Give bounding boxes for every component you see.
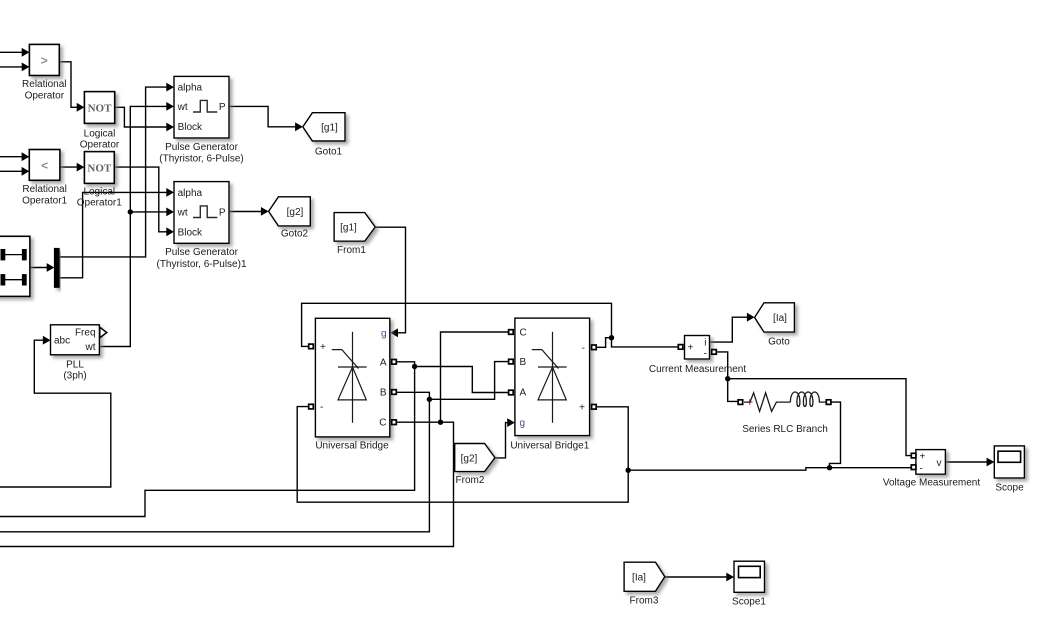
svg-text:Goto2: Goto2 [281, 229, 309, 240]
wire Logical Operator1 output to Pulse Generator1 Block input [114, 167, 167, 232]
svg-text:NOT: NOT [87, 163, 112, 175]
svg-text:Scope: Scope [995, 482, 1024, 493]
arrowhead into Relational Operator input 1 [22, 48, 30, 57]
arrowhead into Universal Bridge1 g input [507, 418, 515, 427]
svg-text:Operator1: Operator1 [22, 195, 67, 206]
svg-text:Series RLC Branch: Series RLC Branch [742, 424, 828, 435]
wire Universal Bridge1 plus output to minus rail [297, 407, 628, 503]
svg-text:Relational: Relational [22, 79, 66, 90]
arrowhead into Pulse Generator1 Block input [166, 227, 174, 236]
wire phase C line from Universal Bridge C port [0, 422, 454, 546]
wire phase A to Universal Bridge1 A port [415, 367, 510, 393]
port pad current measurement minus [712, 350, 717, 355]
port pad universal bridge plus [309, 344, 314, 349]
arrowhead into demux [47, 263, 55, 272]
svg-text:Operator: Operator [25, 91, 65, 102]
port pad universal bridge B [392, 390, 397, 395]
wire From2 output to Universal Bridge1 g input [495, 423, 507, 458]
port pad universal bridge1 plus [592, 405, 597, 410]
junction dot DC plus node [609, 335, 614, 340]
svg-text:abc: abc [54, 336, 70, 347]
wire into Relational Operator1 input 1 [0, 156, 23, 158]
wire phase B jog to Universal Bridge B port [394, 392, 429, 399]
port pad universal bridge1 B [509, 359, 514, 364]
wire phase C branch up to Universal Bridge1 C port [441, 332, 510, 422]
wire Series RLC Branch output down to minus rail [829, 402, 841, 468]
svg-text:wt: wt [85, 342, 96, 353]
pulse generator1 block [156, 182, 246, 271]
wire node to Current Measurement input [612, 338, 681, 347]
port pad series RLC branch right [826, 400, 831, 405]
svg-text:B: B [520, 357, 527, 368]
from1 tag g1 [334, 213, 375, 257]
wire into Relational Operator1 input 2 [0, 170, 23, 172]
unconnected Freq output port arrow [100, 327, 107, 337]
wire From3 output to Scope1 [665, 576, 727, 578]
wire Current Measurement minus to Series RLC Branch [714, 352, 738, 402]
thyristor icon [532, 332, 567, 423]
goto tag Ia [755, 303, 795, 348]
wire branch junction to Pulse Generator1 wt input [130, 211, 167, 213]
inductor L [790, 392, 825, 406]
relational operator1 block < [22, 150, 67, 207]
svg-text:Operator: Operator [80, 140, 120, 151]
junction dot phase C [438, 420, 443, 425]
svg-text:C: C [520, 328, 527, 339]
svg-text:Scope1: Scope1 [732, 597, 766, 608]
thyristor icon [332, 332, 367, 423]
wire feed to PLL abc input [0, 340, 111, 487]
svg-text:B: B [380, 388, 387, 399]
svg-text:+: + [579, 402, 585, 413]
port pad universal bridge A [392, 360, 397, 365]
arrowhead into PLL abc input [43, 336, 51, 345]
svg-text:Relational: Relational [22, 184, 66, 195]
svg-text:C: C [379, 418, 386, 429]
junction dot wt line [128, 209, 133, 214]
junction dot phase B [427, 397, 432, 402]
svg-text:Operator1: Operator1 [77, 198, 122, 209]
arrowhead into Relational Operator input 2 [22, 63, 30, 72]
wire minus rail to Voltage Measurement minus input [628, 468, 913, 471]
wire branch to Voltage Measurement plus input [728, 379, 914, 456]
wire phase B line [0, 399, 429, 532]
svg-text:(3ph): (3ph) [63, 371, 86, 382]
svg-text:-: - [920, 464, 923, 475]
junction dot phase A [412, 364, 417, 369]
svg-text:Logical: Logical [84, 128, 116, 139]
svg-text:Voltage Measurement: Voltage Measurement [883, 478, 981, 489]
logical operator1 block NOT [77, 152, 122, 209]
arrowhead into Goto2 [261, 207, 269, 216]
wire into Relational Operator input 1 [0, 51, 23, 53]
svg-text:A: A [380, 357, 387, 368]
logical operator block NOT [80, 92, 120, 151]
port pad current measurement input [678, 345, 683, 350]
port pad universal bridge1 A [509, 390, 514, 395]
svg-text:[g1]: [g1] [340, 223, 357, 234]
wire Universal Bridge1 minus output jog to node [594, 338, 612, 348]
arrowhead into Relational Operator1 input 2 [22, 167, 30, 176]
wire phase A line [0, 367, 415, 517]
svg-text:A: A [520, 388, 527, 399]
series RLC branch [744, 392, 826, 411]
wire Voltage Measurement v output to Scope [945, 461, 987, 463]
port pad voltage measurement minus [911, 465, 916, 470]
arrowhead into Universal Bridge g input pointing left [390, 328, 398, 337]
svg-text:From1: From1 [337, 245, 366, 256]
PLL (3ph) block [51, 325, 107, 382]
svg-text:Current Measurement: Current Measurement [649, 364, 746, 375]
svg-text:Pulse Generator: Pulse Generator [165, 142, 238, 153]
wire From1 output to Universal Bridge g input [375, 227, 405, 333]
arrowhead into Logical Operator input [77, 103, 85, 112]
svg-text:(Thyristor, 6-Pulse)1: (Thyristor, 6-Pulse)1 [156, 259, 246, 270]
wire phase B to Universal Bridge1 B port [429, 362, 510, 400]
wire phase A jog to Universal Bridge A port [394, 362, 415, 367]
svg-text:-: - [704, 348, 707, 359]
universal bridge block [315, 318, 389, 437]
svg-text:g: g [381, 328, 387, 339]
port pad universal bridge1 C [509, 330, 514, 335]
wire Universal Bridge plus output to node [302, 303, 612, 346]
wire Pulse Generator1 P output to Goto2 [229, 211, 262, 213]
svg-text:Block: Block [178, 227, 203, 238]
svg-text:wt: wt [177, 208, 188, 219]
port pad universal bridge1 minus [592, 345, 597, 350]
arrowhead into Scope [987, 458, 995, 467]
universal bridge1 block [515, 318, 590, 436]
current measurement block [685, 336, 710, 360]
svg-text:Freq: Freq [75, 327, 96, 338]
goto2 tag g2 [269, 197, 311, 240]
wire Pulse Generator P output to Goto1 [229, 106, 296, 126]
wire Relational Operator1 output to Logical Operator1 [60, 166, 78, 168]
scope1 block [732, 561, 766, 607]
svg-text:alpha: alpha [178, 83, 203, 94]
svg-text:Goto: Goto [768, 336, 790, 347]
svg-text:PLL: PLL [66, 360, 84, 371]
svg-text:From3: From3 [630, 595, 659, 606]
svg-text:(Thyristor, 6-Pulse): (Thyristor, 6-Pulse) [159, 154, 243, 165]
svg-text:+: + [920, 452, 926, 463]
svg-text:+: + [320, 342, 326, 353]
svg-text:-: - [320, 402, 323, 413]
port pad universal bridge minus [309, 404, 314, 409]
svg-text:>: > [41, 54, 48, 68]
voltage measurement block [916, 450, 946, 475]
arrowhead into Goto [747, 313, 755, 322]
svg-text:Goto1: Goto1 [315, 147, 343, 158]
from3 tag Ia [624, 562, 665, 606]
wire demux output1 to Pulse Generator alpha input [59, 87, 167, 257]
goto1 tag g1 [303, 113, 345, 158]
svg-text:Pulse Generator: Pulse Generator [165, 247, 238, 258]
scope block [994, 446, 1024, 494]
svg-text:[Ia]: [Ia] [632, 573, 646, 584]
svg-text:-: - [582, 343, 585, 354]
arrowhead into Pulse Generator wt input [166, 102, 174, 111]
arrowhead into Pulse Generator Block input [166, 123, 174, 132]
wire Current Measurement i output to Goto [710, 317, 748, 342]
wire demux output2 to Pulse Generator1 alpha input [59, 192, 167, 277]
junction dot minus rail left [626, 468, 631, 473]
svg-text:alpha: alpha [178, 188, 203, 199]
svg-text:Logical: Logical [83, 186, 115, 197]
port pad universal bridge C [392, 420, 397, 425]
port pad voltage measurement plus [911, 453, 916, 458]
svg-text:Block: Block [178, 122, 203, 133]
svg-text:[g2]: [g2] [287, 207, 304, 218]
svg-text:From2: From2 [456, 475, 485, 486]
svg-text:P: P [219, 102, 226, 113]
wire PLL wt output to Pulse Generator wt input [99, 106, 167, 346]
svg-text:NOT: NOT [88, 102, 113, 114]
resistor R [744, 393, 790, 412]
svg-text:[g1]: [g1] [321, 122, 338, 133]
arrowhead into Goto1 [295, 122, 303, 131]
svg-text:[Ia]: [Ia] [773, 313, 787, 324]
svg-text:i: i [704, 338, 706, 349]
demux bar [54, 248, 59, 287]
port pad series RLC branch left [738, 400, 743, 405]
arrowhead into Pulse Generator1 alpha input [166, 188, 174, 197]
relational operator block > [22, 44, 66, 101]
svg-text:Universal Bridge1: Universal Bridge1 [510, 440, 589, 451]
svg-text:wt: wt [177, 102, 188, 113]
svg-text:Universal Bridge: Universal Bridge [315, 440, 389, 451]
pulse generator block U1 [159, 76, 243, 164]
wire measurement block to demux input [30, 267, 47, 269]
red plus polarity mark [747, 399, 753, 405]
junction dot Current Measurement minus node [725, 376, 730, 381]
arrowhead into Scope1 [726, 573, 734, 582]
arrowhead into Relational Operator1 input 1 [22, 152, 30, 161]
wire into Relational Operator input 2 [0, 66, 23, 68]
arrowhead into Pulse Generator alpha input [166, 83, 174, 92]
wire Logical Operator output to Pulse Generator Block input [115, 107, 167, 127]
from2 tag g2 [455, 444, 495, 486]
svg-text:v: v [937, 458, 942, 469]
svg-text:<: < [41, 159, 48, 173]
arrowhead into Logical Operator1 input [77, 163, 85, 172]
svg-text:P: P [219, 208, 226, 219]
wire Relational Operator output to Logical Operator [59, 62, 77, 108]
svg-text:+: + [688, 342, 694, 353]
svg-text:g: g [520, 418, 526, 429]
svg-text:[g2]: [g2] [461, 453, 478, 464]
junction dot minus rail right [827, 465, 832, 470]
arrowhead into Pulse Generator1 wt input [166, 208, 174, 217]
measurement subsystem block cut off at left edge [0, 236, 30, 296]
